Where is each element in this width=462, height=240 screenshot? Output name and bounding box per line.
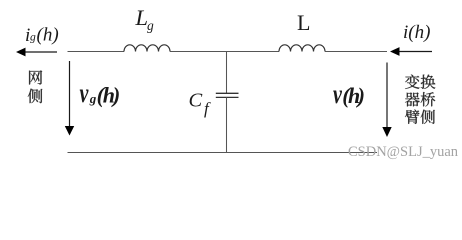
- node label: grid side (Chinese 网侧): [28, 70, 43, 103]
- svg-text:(h): (h): [37, 25, 59, 46]
- watermark CSDN@SLJ_yuan: [348, 144, 459, 160]
- wire top-right segment: [325, 51, 387, 53]
- wire top-left segment: [68, 51, 125, 53]
- svg-text:g: g: [30, 32, 36, 44]
- label vg(h): [80, 79, 121, 109]
- svg-text:i(h): i(h): [403, 22, 430, 43]
- svg-text:L: L: [135, 5, 149, 30]
- current arrow i (points left): [390, 47, 432, 56]
- svg-text:v: v: [80, 79, 89, 109]
- svg-text:CSDN@SLJ_yuan: CSDN@SLJ_yuan: [348, 144, 459, 160]
- svg-text:C: C: [189, 90, 203, 112]
- svg-text:g: g: [147, 18, 154, 33]
- label L: [297, 10, 310, 35]
- wire bottom: [68, 152, 378, 154]
- svg-text:v: v: [333, 80, 342, 110]
- label ig(h): [25, 25, 59, 47]
- svg-text:): ): [111, 83, 120, 108]
- inductor Lg: [124, 45, 170, 52]
- voltage arrow vg (down): [65, 61, 74, 136]
- capacitor Cf plates: [216, 93, 239, 97]
- voltage arrow v (down): [382, 63, 391, 138]
- current arrow ig (points left): [16, 48, 57, 57]
- capacitor stem bottom: [226, 97, 228, 152]
- inductor L: [279, 45, 325, 52]
- svg-text:g: g: [89, 91, 97, 106]
- svg-text:L: L: [297, 10, 310, 35]
- label Lg: [135, 5, 155, 33]
- label i(h): [403, 22, 430, 43]
- node label: converter bridge-arm side (Chinese 变换器桥臂侧): [405, 75, 435, 124]
- capacitor stem top: [226, 52, 228, 94]
- svg-text:): ): [356, 83, 365, 108]
- label v(h): [333, 80, 365, 110]
- label Cf: [189, 90, 212, 119]
- wire top-middle segment: [170, 51, 279, 53]
